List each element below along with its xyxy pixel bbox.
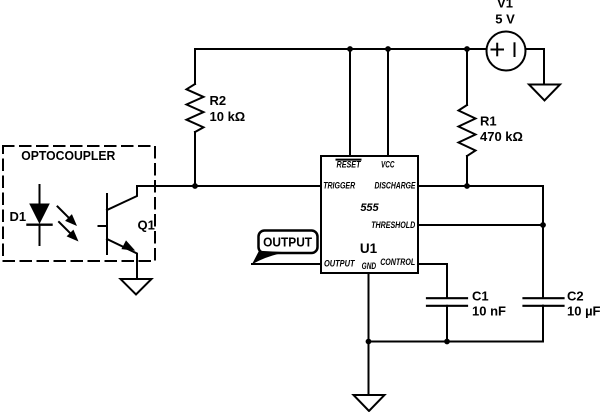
flag OUTPUT	[252, 231, 318, 265]
svg-text:V1: V1	[497, 0, 513, 11]
svg-text:D1: D1	[10, 209, 27, 224]
svg-text:OUTPUT: OUTPUT	[263, 235, 312, 250]
LED D1	[10, 185, 52, 245]
wire bottom rail	[369, 306, 544, 342]
ground under Q1	[121, 279, 152, 295]
voltage source V1	[487, 0, 526, 71]
svg-text:555: 555	[360, 202, 379, 214]
optocoupler dashed box	[3, 146, 155, 261]
capacitor C1	[427, 289, 506, 342]
svg-text:DISCHARGE: DISCHARGE	[375, 181, 417, 191]
transistor Q1	[99, 186, 155, 279]
ground bottom	[354, 395, 385, 411]
ground near V1	[529, 85, 560, 101]
svg-text:Q1: Q1	[138, 218, 155, 233]
junction R1/DISCHARGE	[464, 183, 470, 189]
svg-text:THRESHOLD: THRESHOLD	[371, 220, 415, 230]
capacitor C2	[524, 289, 600, 342]
wire VCC vertical	[387, 49, 389, 156]
junction top VCC	[385, 46, 391, 52]
junction THRESHOLD	[540, 222, 546, 228]
wire TRIGGER	[137, 185, 321, 187]
svg-text:10 µF: 10 µF	[567, 304, 600, 319]
wire CONTROL to C1 top	[418, 264, 447, 298]
junction trigger/R2	[192, 183, 198, 189]
wire V1 to ground	[526, 49, 545, 85]
svg-text:5 V: 5 V	[495, 12, 515, 27]
svg-text:470 kΩ: 470 kΩ	[480, 129, 523, 144]
svg-text:OUTPUT: OUTPUT	[324, 259, 356, 269]
svg-text:R2: R2	[210, 93, 227, 108]
svg-text:RESET: RESET	[337, 160, 362, 170]
resistor R1	[459, 49, 523, 186]
wire THRESHOLD	[418, 224, 543, 226]
junction top R1	[464, 46, 470, 52]
svg-text:10 nF: 10 nF	[472, 304, 506, 319]
svg-text:GND: GND	[362, 261, 377, 271]
resistor R2	[187, 49, 246, 186]
wire RESET vertical	[349, 49, 351, 156]
svg-text:U1: U1	[360, 241, 378, 256]
svg-text:VCC: VCC	[381, 160, 395, 170]
light arrow 2	[59, 222, 79, 242]
svg-text:R1: R1	[480, 114, 497, 129]
wire GND vertical	[368, 273, 370, 395]
op IC U1 555	[321, 156, 418, 273]
light arrow 1	[58, 207, 78, 227]
svg-text:OPTOCOUPLER: OPTOCOUPLER	[21, 148, 116, 163]
svg-text:C1: C1	[472, 289, 489, 304]
svg-text:TRIGGER: TRIGGER	[323, 181, 355, 191]
wire top rail	[195, 48, 487, 50]
wire OUTPUT stub	[252, 263, 321, 265]
junction C1 rail	[444, 339, 450, 345]
svg-text:10 kΩ: 10 kΩ	[210, 109, 246, 124]
junction top RESET	[347, 46, 353, 52]
svg-text:CONTROL: CONTROL	[380, 257, 415, 267]
wire DISCHARGE to C2 top	[418, 186, 543, 298]
junction GND rail	[366, 339, 372, 345]
svg-text:C2: C2	[567, 289, 584, 304]
